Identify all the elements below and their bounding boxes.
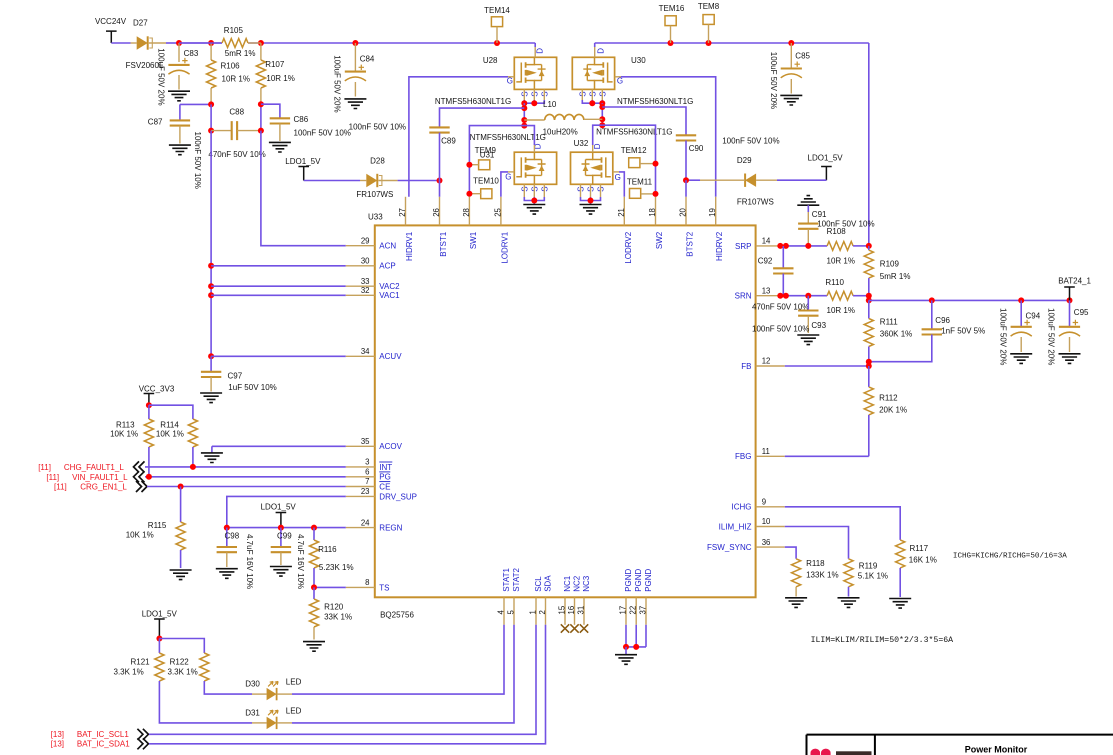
resistor R113 10K [110,405,153,476]
svg-text:VCC_3V3: VCC_3V3 [139,384,175,393]
wire U28 sources to SW1 [521,89,544,128]
ground R118 [785,598,807,608]
svg-text:37: 37 [639,606,648,615]
svg-text:100nF 50V 10%: 100nF 50V 10% [193,132,202,189]
svg-text:16: 16 [567,606,576,615]
wire SCL net [149,625,536,735]
pin 22 PGND [629,568,643,624]
svg-text:133K 1%: 133K 1% [806,571,838,580]
svg-text:NC2: NC2 [572,575,581,592]
wire ACP/VAC bus [208,131,214,360]
svg-text:10K 1%: 10K 1% [110,430,138,439]
LED D31 [245,707,301,730]
svg-text:C90: C90 [689,144,704,153]
svg-text:33K 1%: 33K 1% [324,613,352,622]
svg-text:FR107WS: FR107WS [737,198,774,207]
svg-text:24: 24 [361,518,370,527]
svg-text:7: 7 [365,477,369,486]
transistor U31 NTMFS5H630NLT1G [470,133,557,192]
no-connect NC3 [580,624,588,632]
wire ACOV to ground [212,445,346,447]
resistor R106 10R [207,43,250,104]
pin 16 NC2 [567,575,581,625]
svg-text:C95: C95 [1074,308,1089,317]
svg-text:LDO1_5V: LDO1_5V [808,154,844,163]
ground C99 [270,567,292,577]
ground U31 [523,205,545,215]
wire D30 to STAT1 [292,625,504,694]
svg-text:R117: R117 [910,544,929,553]
capacitor C83 100uF [168,43,198,90]
junction dots on bus [176,40,794,46]
power flag BAT24_1 [1058,276,1091,300]
pin 35 ACOV [346,437,403,451]
svg-text:5.1K 1%: 5.1K 1% [858,572,888,581]
svg-text:35: 35 [361,437,370,446]
svg-text:100uF 50V 20%: 100uF 50V 20% [156,48,165,105]
svg-text:TEM9: TEM9 [475,146,497,155]
svg-text:TEM8: TEM8 [698,2,720,11]
wire PGND join [623,625,646,655]
transistor U28 NTMFS5H630NLT1G [435,48,557,106]
svg-text:R115: R115 [148,521,167,530]
transistor U32 NTMFS5H630NLT1G [571,128,673,192]
svg-text:22: 22 [629,606,638,615]
ground R119 [838,598,860,608]
pin 13 SRN [735,286,785,300]
svg-text:R111: R111 [880,318,898,327]
wire U28 drain [534,43,536,57]
ground ACOV [201,446,223,462]
wire FBG node [785,455,869,457]
pin 14 SRP [735,237,785,251]
resistor R117 16K [896,540,937,597]
wire SW1 to U31 drain and SW1 pin [469,126,534,197]
test point TEM9 [466,146,496,170]
svg-text:SRN: SRN [735,292,752,301]
svg-text:STAT2: STAT2 [512,568,521,592]
svg-text:5mR 1%: 5mR 1% [880,272,911,281]
resistor R115 10K [126,487,186,569]
test point TEM14 [484,6,510,43]
wire ICHG to R117 [785,507,900,540]
resistor R111 360K [864,300,912,366]
svg-text:31: 31 [577,606,586,615]
pin 11 FBG [735,447,785,461]
svg-text:C85: C85 [795,52,810,61]
resistor R122 3.3K [168,653,253,694]
svg-text:TS: TS [379,583,389,592]
svg-text:29: 29 [361,236,370,245]
svg-text:G: G [617,76,623,85]
svg-text:VCC24V: VCC24V [95,17,127,26]
svg-text:33: 33 [361,277,370,286]
ground C87 [169,145,191,155]
resistor R107 10R [256,43,295,104]
capacitor C91 100nF [798,210,874,246]
diode D29 FR107WS [700,156,826,207]
svg-text:SW1: SW1 [469,231,478,249]
power flag LDO1_5V regn [261,503,297,528]
power flag VCC_3V3 [139,384,175,405]
wire U32 sources to ground [581,184,601,204]
wire TS node [311,584,346,590]
transistor U30 NTMFS5H630NLT1G [572,48,693,106]
svg-text:5.23K 1%: 5.23K 1% [319,563,354,572]
test point TEM8 [698,2,720,43]
svg-text:1nF 50V 5%: 1nF 50V 5% [941,327,985,336]
pin 10 ILIM_HIZ [719,517,785,531]
svg-text:100uF 50V 20%: 100uF 50V 20% [333,55,342,112]
svg-text:FSW_SYNC: FSW_SYNC [707,543,752,552]
svg-text:4.7uF 16V 10%: 4.7uF 16V 10% [296,534,305,589]
svg-text:D31: D31 [245,709,260,718]
svg-text:C99: C99 [277,532,292,541]
svg-text:ILIM_HIZ: ILIM_HIZ [719,522,752,531]
off-page CRG_EN1_L [54,481,147,492]
wire R106 to C88 node [208,104,214,133]
wire U31 sources to ground [524,184,544,204]
svg-text:2: 2 [538,610,547,614]
wire D28 to BTST1 [398,178,443,184]
ground C93 [797,335,819,345]
svg-text:TEM12: TEM12 [621,146,647,155]
svg-text:U30: U30 [631,56,646,65]
svg-text:PGND: PGND [624,568,633,591]
svg-text:REGN: REGN [379,524,402,533]
svg-text:FBG: FBG [735,452,751,461]
wire ILIM_HIZ to R119 [785,527,849,559]
svg-text:C93: C93 [811,321,826,330]
svg-text:NTMFS5H630NLT1G: NTMFS5H630NLT1G [596,128,672,137]
ground C94 [1010,354,1032,364]
pin 27 HIDRV1 [398,197,414,261]
wire BTST1 pin [439,181,441,197]
svg-text:D29: D29 [737,156,752,165]
svg-text:BTST1: BTST1 [439,231,448,256]
svg-text:ACP: ACP [379,262,395,271]
svg-text:6: 6 [365,468,369,477]
svg-text:100uF 50V 20%: 100uF 50V 20% [1046,308,1055,365]
svg-text:CRG_EN1_L: CRG_EN1_L [80,483,127,492]
LED D30 [245,678,301,701]
node VCC_3V3 [146,402,193,419]
svg-text:1uF 50V 10%: 1uF 50V 10% [228,383,276,392]
op-amp U33 BQ25756 body [368,213,756,620]
svg-text:C97: C97 [228,372,243,381]
svg-text:5: 5 [507,610,516,615]
pin 23 DRV_SUP [346,487,417,501]
svg-text:10R 1%: 10R 1% [222,74,250,83]
svg-text:100nF 50V 10%: 100nF 50V 10% [752,325,809,334]
resistor R109 5mR [864,246,910,304]
wire bus right half [595,42,869,44]
svg-text:SW2: SW2 [655,231,664,249]
wire U31 gate to LODRV1 [501,172,514,197]
svg-text:LED: LED [286,707,302,716]
svg-text:HIDRV1: HIDRV1 [405,231,414,261]
svg-text:NTMFS5H630NLT1G: NTMFS5H630NLT1G [435,97,511,106]
wire ACP [211,265,346,267]
pin 24 REGN [346,518,403,532]
resistor R118 133K [791,559,838,597]
wire VCC24V to D27 [111,42,130,44]
resistor R110 10R [825,278,868,315]
svg-text:100uF 50V 20%: 100uF 50V 20% [769,52,778,109]
svg-text:100nF 50V 10%: 100nF 50V 10% [349,123,406,132]
svg-text:TEM14: TEM14 [484,6,510,15]
svg-text:C92: C92 [758,257,773,266]
svg-text:3.3K 1%: 3.3K 1% [114,667,144,676]
capacitor C93 100nF [752,296,827,334]
resistor R112 20K [864,366,907,456]
svg-text:VIN_FAULT1_L: VIN_FAULT1_L [72,473,128,482]
svg-text:LDO1_5V: LDO1_5V [285,157,321,166]
svg-text:3: 3 [365,458,369,467]
svg-text:HIDRV2: HIDRV2 [715,231,724,261]
pin 33 VAC2 [346,277,400,291]
svg-text:C87: C87 [148,118,163,127]
svg-text:14: 14 [762,237,771,246]
svg-text:R114: R114 [160,421,179,430]
ground C84 [344,99,366,109]
svg-text:11: 11 [762,447,770,456]
svg-text:LDO1_5V: LDO1_5V [261,503,297,512]
svg-text:ICHG=KICHG/RICHG=50/16=3A: ICHG=KICHG/RICHG=50/16=3A [953,553,1067,561]
svg-text:C84: C84 [360,55,375,64]
test point TEM12 [621,146,659,168]
svg-text:SDA: SDA [543,575,552,592]
svg-text:15: 15 [558,605,567,614]
ground inverted C91 [797,196,819,212]
svg-text:10: 10 [762,517,771,526]
svg-text:VAC2: VAC2 [379,282,400,291]
svg-text:4.7uF 16V 10%: 4.7uF 16V 10% [245,534,254,589]
svg-text:470nF 50V 10%: 470nF 50V 10% [208,150,265,159]
svg-text:30: 30 [361,257,370,266]
ground PGND [615,655,637,665]
capacitor C97 1uF [201,356,277,392]
svg-text:26: 26 [432,208,441,217]
diode D27 FSV2060L [126,18,166,70]
svg-text:ACN: ACN [379,242,396,251]
wire INT net [145,464,346,470]
svg-text:C94: C94 [1026,312,1041,321]
svg-text:R110: R110 [825,278,844,287]
pin 25 LODRV1 [493,197,509,264]
off-page CHG_FAULT1_L [38,461,144,472]
svg-text:PG: PG [379,473,391,482]
resistor R114 10K [156,419,198,467]
svg-text:STAT1: STAT1 [502,568,511,592]
power flag LDO1_5V left [285,157,321,181]
svg-text:BAT_IC_SCL1: BAT_IC_SCL1 [77,730,129,739]
svg-text:R120: R120 [324,603,344,612]
off-page BAT_IC_SCL1 [51,729,149,740]
svg-text:R112: R112 [879,394,898,403]
svg-text:20K 1%: 20K 1% [879,406,907,415]
svg-text:R113: R113 [116,421,135,430]
svg-text:10K 1%: 10K 1% [126,531,154,540]
svg-text:23: 23 [361,487,370,496]
node VIN bus [179,42,222,44]
pin 4 STAT1 [497,568,511,625]
pin 3 INT [346,458,393,472]
svg-text:21: 21 [617,208,626,217]
svg-text:[11]: [11] [46,473,59,482]
pin 30 ACP [346,257,396,271]
resistor R105 5mR [179,26,261,58]
ground R117 [889,599,911,609]
svg-text:8: 8 [365,578,369,587]
svg-text:10R 1%: 10R 1% [827,306,855,315]
wire BTST2 pin [685,180,687,197]
capacitor C92 470nF [752,246,809,312]
wire D29 to BTST2 [683,177,700,183]
capacitor C88 470nF [208,108,265,160]
svg-text:NTMFS5H630NLT1G: NTMFS5H630NLT1G [617,97,693,106]
test point TEM10 [466,177,499,199]
svg-text:INT: INT [379,463,392,472]
capacitor C85 100uF [781,43,811,94]
wire U30 gate to HIDRV2 [615,77,716,197]
pin 2 SDA [538,575,552,625]
wire FB node [785,359,872,369]
wire U32 gate to LODRV2 [613,172,625,197]
capacitor C98 4.7uF [217,528,240,567]
wire VAC1 [211,294,346,296]
svg-text:R105: R105 [224,26,244,35]
ground C83 [168,91,190,101]
wire DRV_SUP [227,496,346,527]
capacitor C95 100uF [1059,300,1089,352]
svg-text:[11]: [11] [38,463,51,472]
svg-text:R106: R106 [221,62,241,71]
svg-text:16K 1%: 16K 1% [909,556,937,565]
wire SRP node [777,243,827,249]
svg-text:R109: R109 [880,260,900,269]
svg-text:10R 1%: 10R 1% [827,257,855,266]
pin 18 SW2 [648,197,664,249]
capacitor C87 100nF [148,104,190,143]
svg-text:C98: C98 [225,532,240,541]
logo [811,749,872,755]
resistor R116 5.23K [309,528,353,588]
svg-text:D: D [596,48,605,54]
pin 21 LODRV2 [617,197,633,264]
svg-text:PGND: PGND [644,568,653,591]
ground R120 [303,642,325,652]
svg-text:G: G [505,173,511,182]
ground U32 [580,205,602,215]
resistor R121 3.3K [114,639,253,723]
svg-text:TEM16: TEM16 [659,4,685,13]
svg-text:C88: C88 [229,108,244,117]
svg-text:100nF 50V 10%: 100nF 50V 10% [294,129,351,138]
wire D31 to STAT2 [292,625,514,723]
svg-text:C91: C91 [812,210,827,219]
svg-text:C96: C96 [935,316,950,325]
svg-text:34: 34 [361,347,370,356]
svg-text:L10: L10 [543,100,557,109]
off-page VIN_FAULT1_L [46,471,144,482]
no-connect NC2 [570,624,578,632]
svg-text:100uF 50V 20%: 100uF 50V 20% [999,308,1008,365]
node LED supply [156,636,204,654]
svg-text:10uH20%: 10uH20% [543,128,578,137]
svg-text:R122: R122 [170,658,190,667]
pin 28 SW1 [462,197,478,249]
svg-text:CE: CE [379,482,390,491]
svg-text:LED: LED [286,678,302,687]
wire D27 to bus [166,42,179,44]
svg-text:[13]: [13] [51,740,64,749]
ground C86 [269,142,291,152]
wire ACN from C88 node [261,131,346,246]
svg-text:PGND: PGND [634,568,643,591]
capacitor C90 bootstrap2 [602,107,779,180]
svg-text:D27: D27 [133,18,148,27]
svg-text:R118: R118 [806,559,825,568]
wire bus after R105 [248,42,535,44]
wire ACUV [211,355,346,357]
svg-text:1: 1 [529,610,538,614]
pin 37 PGND [639,568,653,624]
svg-text:U32: U32 [574,139,589,148]
svg-text:U33: U33 [368,213,383,222]
wire SW2 to U32 drain and SW2 pin [593,125,656,197]
svg-text:17: 17 [619,606,628,615]
wire U30 drain [594,43,596,57]
svg-text:10R 1%: 10R 1% [266,74,294,83]
test point TEM16 [659,4,685,43]
resistor R119 5.1K [844,559,888,597]
svg-text:D: D [535,48,544,54]
svg-text:BAT_IC_SDA1: BAT_IC_SDA1 [77,740,130,749]
wire U30 sources to SW2 [582,89,605,128]
svg-text:C89: C89 [441,137,456,146]
pin 15 NC1 [558,575,572,625]
svg-text:25: 25 [493,207,502,216]
svg-text:3.3K 1%: 3.3K 1% [168,667,198,676]
wire U28 gate to HIDRV1 [409,77,514,197]
pin 32 VAC1 [346,286,400,300]
wire CE net [147,484,346,490]
wire battery rail [869,297,1073,303]
title block border [807,735,1113,755]
svg-text:DRV_SUP: DRV_SUP [379,492,417,501]
svg-text:27: 27 [398,208,407,217]
pin 8 TS [346,578,390,592]
power flag LDO1_5V right [808,154,844,181]
pin 29 ACN [346,236,397,250]
pin 12 FB [741,357,785,371]
wire SDA net [149,625,546,744]
svg-text:BQ25756: BQ25756 [380,611,414,620]
wire SRN node [777,293,827,299]
power flag LDO1_5V leds [142,610,178,639]
svg-text:[11]: [11] [54,483,67,492]
capacitor C89 bootstrap1 [349,108,525,180]
svg-text:36: 36 [762,538,771,547]
svg-text:12: 12 [762,357,771,366]
svg-text:100nF 50V 10%: 100nF 50V 10% [722,137,779,146]
resistor R108 10R [827,227,872,266]
svg-text:9: 9 [762,498,766,507]
pin 31 NC3 [577,575,591,625]
pin 5 STAT2 [507,568,521,625]
svg-text:28: 28 [462,208,471,217]
